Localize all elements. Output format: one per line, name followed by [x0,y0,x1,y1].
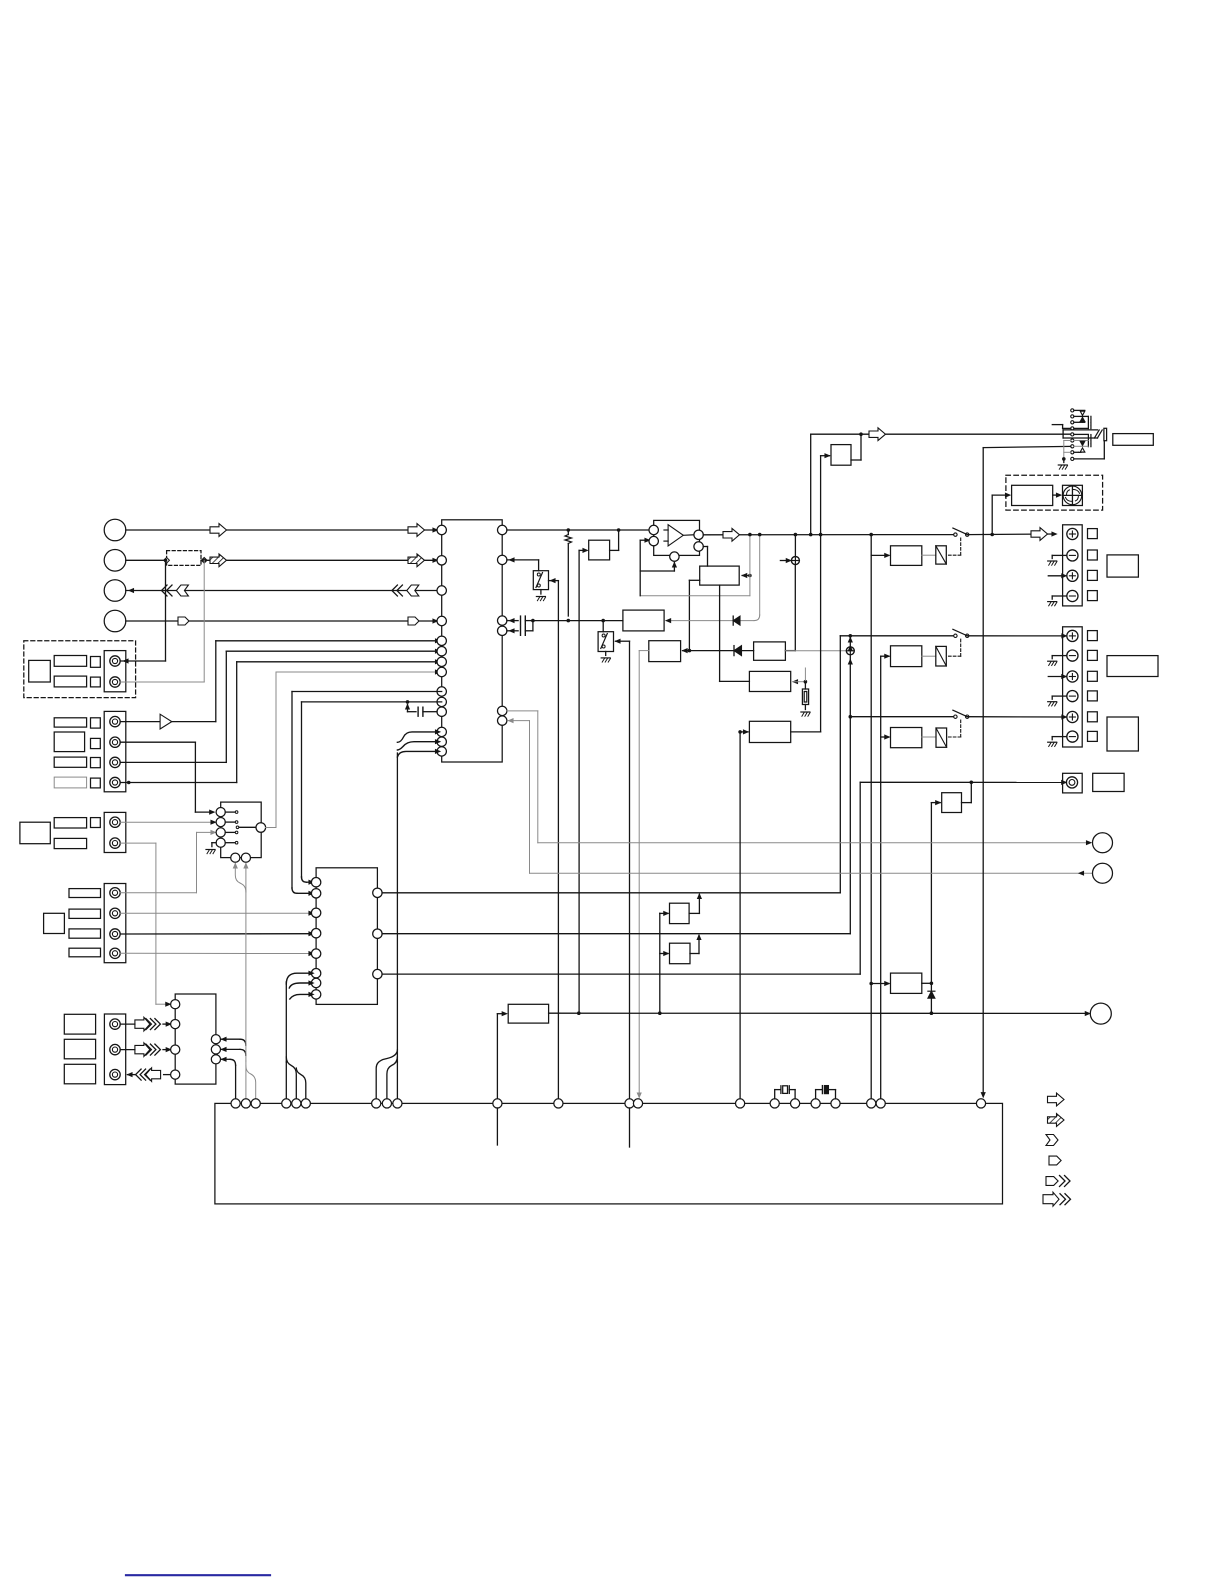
U1 left pin 3 [437,586,446,595]
U2 left pin 5 [311,949,320,958]
SP1 terminal 3 plus [1067,570,1078,581]
SP2 terminal 1 plus [1067,630,1078,641]
B8 input [931,801,940,990]
wire U1.out1 to opamp [507,528,649,532]
jack pin3 lead [1074,421,1085,424]
diode D3 [928,991,935,1015]
IC U1 body [442,520,503,762]
label rect d2 [54,676,86,687]
B1 bottom feed [689,580,699,650]
fan motor M1 [1063,485,1083,505]
encoder pin4 ground [206,843,216,854]
jack diode DH2 filled [1080,417,1085,421]
hatched arrow row2 b [408,554,425,567]
system control block body [215,1103,1003,1204]
terminal CN2-2 [110,737,120,747]
encoder pin2 [216,818,225,827]
encoder pin3 [216,828,225,837]
SP2 t2 ground [1048,656,1067,666]
wire CN2-1 up to U1 [216,639,440,722]
SP2 label box B [1107,717,1138,751]
label rect c2c [54,757,86,767]
jack label box [1113,434,1154,446]
terminal CN5-3 [110,1069,120,1079]
preout terminal [1066,777,1077,788]
pin square d2 [91,677,101,687]
arrowhead into U1 pin1 [433,528,438,532]
U1 left pin 14 [437,747,446,756]
det riser from U2 area [659,912,661,914]
K1 coupler [922,546,947,564]
diode D1 [734,646,742,656]
snubber cap C4 [816,1086,836,1099]
U2 left pin 3 [311,908,320,917]
connector CN4 body [104,884,126,963]
main line opamp to SPK switch [703,528,955,541]
U1 left pin 1 [437,525,446,534]
jack pin9 wire [1074,441,1104,459]
terminal CN5-1 [110,1019,120,1029]
wire S1r2 to bus [222,1047,246,1055]
cap line to box B5 [533,619,623,623]
terminal CN5-2 [110,1044,120,1054]
legend arrow 4 pentagon [1049,1156,1061,1165]
SW1 right wire [549,579,559,1099]
speaker line2 to SP2 [967,634,1066,638]
U2 right pin3 wire [382,973,860,975]
label rect c4a [69,889,101,898]
net 650 wire [683,649,754,653]
K2 input [881,654,890,1099]
label rect c4d [69,948,101,957]
label rect c4c [69,929,101,938]
U2 pins6-8 ribbon fan [286,971,313,1062]
encoder common circle [256,823,266,833]
preout label box [1093,773,1124,791]
jack diode DH1 hollow [1080,411,1085,416]
wire CN4-3 to U2 [120,932,313,936]
chevron arrow row3 a [162,585,189,596]
U1 pin9 wire to U2 [292,692,442,896]
op-amp U3 outer box [654,520,700,555]
relay switch SWA [953,528,969,536]
snubber crystal X3 [775,1086,795,1099]
relay switch SWC [953,710,969,718]
label rect c4b [69,909,101,918]
U1 pins12-14 ribbon fan [397,730,440,1062]
ribbon fan to bus group3 [376,1050,397,1099]
terminal CN3-2 [110,838,120,848]
pentagon arrow row4 b [408,617,419,625]
BB in [660,952,669,956]
SUM1 to main line [794,535,796,557]
terminal CN1-1 [110,656,120,666]
K3 input [881,735,890,739]
speaker block SP1 body [1063,525,1083,606]
wire CN2-2 down [120,742,214,814]
preout terminal box [1063,773,1083,793]
connector CN1 body [104,651,126,692]
U2 right pin 2 [373,929,382,938]
relay driver K2 box [891,646,922,667]
crystal X2 [801,682,810,717]
delay box BB [670,943,691,964]
jack diode DH3 filled [1080,441,1085,446]
label rect d1 [54,656,86,667]
bus inner stub 1 [496,1108,498,1145]
preout line [860,780,1066,784]
B10 input [871,982,889,986]
block B0 [589,540,610,560]
legend arrow 2 hatched [1048,1114,1065,1127]
jack diode DH4 hollow [1080,448,1085,452]
B7 input [821,454,830,535]
U2 net up C [859,782,861,974]
terminal CN3-1 [110,817,120,827]
op-amp U3 in2 [649,536,658,545]
jack sleeve net vertical [981,534,985,1097]
mute switch SW1 box [533,571,548,590]
fan link [1053,493,1061,497]
top line to headphone jack [811,428,1070,441]
wire row2 right [164,559,442,563]
U2 right pin 1 [373,888,382,897]
label box c4 [44,913,65,933]
label box c2b [54,732,84,752]
speaker line2 [840,634,955,638]
U1 right pin 6 [498,716,507,725]
hatched arrow row2 a [210,554,227,567]
B1 right input [742,574,752,578]
terminal CN2-1 [110,716,120,726]
pin square c2-3 [91,758,101,768]
terminal CN4-2 [110,908,120,918]
U2 fan to bus group2 [286,1057,306,1099]
jack ground net (grey) [1064,441,1071,459]
K1 dashed link [948,538,961,555]
U2 left pin 8 [311,990,320,999]
big circle out2 [1093,863,1113,883]
U2 left pin 1 [311,878,320,887]
label rect c3a [54,818,86,828]
U1 left pin 5 [437,636,446,645]
K2 coupler [922,646,947,666]
pin S1 right2 [211,1045,220,1054]
K3 dashed link [948,720,961,737]
wire encoder pinB down (grey) [244,864,248,1062]
pin S1 left1 [171,1000,180,1009]
relay switch SWB [953,629,969,637]
terminal CN1-2 [110,677,120,687]
SP2 pin squares [1088,631,1098,742]
relay driver K3 box [891,728,922,748]
delay box BA [670,903,690,923]
SP2 terminal 6 minus [1067,731,1078,742]
SW2 ground [601,652,610,663]
mute switch SW2 box [598,621,613,652]
U1 right pin 4 [498,626,507,635]
wire CN2-4 up to U1 [120,660,440,784]
wire encoder pinA down (grey) [233,864,246,893]
U1 right pin 1 [498,525,507,534]
grey link B2 to sum2 [785,650,846,652]
block B4 [749,721,790,742]
U2 right pin 3 [373,969,382,978]
protect box B7 [831,445,851,466]
SP2 terminal 4 minus [1067,691,1078,702]
terminal CN4-3 [110,929,120,939]
terminal CN4-4 [110,948,120,958]
optical module box [29,660,51,682]
speaker line3 [849,715,956,719]
summing node SUM1 [791,557,799,565]
block S1 body [175,994,216,1084]
wire row3 [126,589,442,593]
legend arrow 6 block chev [1043,1192,1071,1206]
pin S1 right1 [211,1035,220,1044]
U1 pin10 wire to U2 [302,702,442,884]
fan feed [992,493,1010,534]
pin square d1 [91,657,101,668]
connector CN5 body [104,1014,125,1085]
label rect c2a [54,718,86,727]
block B5 [623,610,664,631]
label box c5c [64,1064,95,1084]
SUM1 stub in [780,559,790,563]
U1 left pin 6 [437,647,446,656]
SP2 terminal 3 plus [1067,671,1078,682]
footer link line [126,1574,270,1576]
wire fanout to bus mid (grey) [245,1061,247,1099]
U1 left pin 11 [437,707,446,716]
wire encoder common to U1 (grey) [266,670,440,827]
U2 left pin 2 [311,889,320,898]
SP1 t2 ground [1048,555,1067,565]
SP1 t3 stub [1048,574,1066,578]
label box c3 [20,822,50,844]
U2 left pin 7 [311,978,320,987]
grey riser pin5 [507,711,538,843]
input jack J4 [104,610,126,632]
fan driver box [1012,485,1053,505]
pin square c2-1 [91,718,101,728]
big circle out1 [1093,833,1113,853]
SP1 terminal 4 minus [1067,590,1078,601]
wire CN4-1 up to encoder (grey) [120,830,215,892]
grey riser pin6 [509,719,530,874]
wire row2 left [126,559,167,561]
power rail vert A to bus [869,555,873,1098]
SP2 t6 ground [1048,737,1067,747]
terminal CN4-1 [110,888,120,898]
wire row4 [126,620,442,622]
op-amp U3 out2 [694,542,703,551]
bus arrow out CN5-1 [120,1017,171,1031]
BA out [689,894,701,913]
encoder pin4 [216,838,225,847]
capacitor C1 to U1 pin11 [406,700,437,716]
wire S1r3 to bus [222,1057,236,1098]
connector CN3 body [104,812,126,852]
block B2 [754,642,786,660]
op-amp U3 in1 [649,525,658,534]
headphone det circle [1090,1003,1111,1024]
K2 dashed link [948,639,961,656]
SP2 t4 ground [1048,696,1067,706]
B4 feed vert [739,732,741,1099]
wire B1 to B3 [720,585,750,681]
legend arrow 1 open [1048,1093,1065,1106]
det box B9 [508,1004,548,1023]
SP2 label box A [1107,656,1158,677]
sum node SUM2 [846,638,854,934]
box B8 [942,793,962,813]
jack line2 [983,446,1070,534]
block B6 [649,641,681,662]
bus arrow out CN5-2 [120,1043,171,1057]
block B3 [749,671,790,691]
SP1 pin squares [1088,529,1098,601]
signal arrow row1 b [408,524,425,537]
B9 input [497,1012,506,1099]
SP2 terminal 5 plus [1067,711,1078,722]
terminal CN2-4 [110,777,120,787]
B4 output loop [791,731,821,733]
bus pin circles [231,1099,986,1108]
input jack J1 (top analog input) [104,519,126,541]
chevron arrow row3 b [392,585,419,596]
op-amp U3 bottom pin [640,552,679,571]
U1 right pin 5 [498,706,507,715]
pin square c2-2 [91,738,101,748]
det net riser [660,911,669,1013]
speaker block SP2 body [1063,627,1083,747]
wire CN3-2 down to S1 block (grey) [120,843,170,1006]
pin S1 left3 [171,1045,180,1054]
label rect c3b [54,838,86,848]
wire S1r1 to bus [222,1037,246,1045]
op-amp U3 triangle [664,525,683,546]
SP2 t3 stub [1048,675,1066,679]
wire CN2-3 up to U1 [120,649,440,762]
pentagon arrow row4 a [178,617,189,625]
SP1 label box [1107,555,1138,577]
SP2 terminal 2 minus [1067,650,1078,661]
arrowhead into U1 pin2 [433,558,438,562]
resistor R1 [565,530,572,616]
op-amp U3 out1 [683,530,703,539]
pin square c2-4 [91,778,101,788]
encoder body outline [221,802,262,858]
SW2 right wire [616,639,630,1099]
pin S1 right3 [211,1055,220,1064]
jack pin1 lead [1074,409,1085,411]
jack plug body [1063,430,1102,438]
label rect c2d (grey) [54,777,86,788]
power detect box B10 [891,973,922,993]
wire CN1-2 to row2 (grey) [120,560,204,682]
jack pin6 lead (grey) [1074,440,1088,442]
jack tip rect [1104,428,1107,440]
SP1 terminal 2 minus [1067,550,1078,561]
B7 output up [851,434,861,460]
wire CN4-2 to U2 (grey) [120,911,313,915]
wire CN4-4 to U2 (grey) [120,952,313,956]
B3 right net [793,668,807,684]
SW1 ground [536,590,545,601]
pin square c3-1 [91,818,101,828]
jack pin8 lead [1074,451,1082,453]
encoder common stub [236,826,256,829]
input jack J3 [104,580,126,602]
dashed option box on row2 [164,551,207,566]
op-amp out2 wire to B1 [703,547,707,567]
dashed block optical-in [24,641,136,698]
block B2 right link [785,565,795,651]
terminal CN2-3 [110,757,120,767]
wire row1 [126,529,442,531]
pin S1 left4 [171,1070,180,1079]
U2 right pin2 wire [382,933,850,935]
jack sleeve bar upper [1088,416,1091,428]
K3 coupler [922,728,947,747]
input jack J2 [104,550,126,572]
jack pin7 lead [1074,445,1088,447]
U2 left pin 4 [311,929,320,938]
vertical from main line to top [810,434,812,534]
coupling caps C2 C3 [507,616,535,635]
IC U2 body [316,868,377,1005]
signal arrow row1 a [210,524,227,537]
U1 left pin 4 [437,616,446,625]
U1 left pin 12 [437,727,446,736]
jack pin2 lead [1074,415,1088,417]
big circle out2 (grey line) [530,871,1093,875]
U1 left pin 9 [437,687,446,696]
U1 left pin 10 [437,697,446,706]
wire CN1-1 to row2 [120,560,165,663]
B10 output [922,982,933,986]
label box c5b [64,1039,95,1059]
encoder pin1 [216,808,225,817]
buffer amp on CN2-1 [120,714,216,729]
junction R1 cap line [567,619,571,623]
label box c5a [64,1014,95,1034]
U1 left pin 7 [437,657,446,666]
net 579 to det line [579,548,587,1013]
big circle out1 (grey line) [538,841,1091,845]
grey drop net2 [666,535,760,623]
vertical B7 line down [820,535,822,732]
wire U1.out2 to SW1 [507,558,539,571]
jack sleeve bar lower [1088,435,1091,447]
pin S1 left2 [171,1020,180,1029]
encoder bottom pinB [241,853,250,862]
fan dashed box [1006,475,1103,510]
diode D2 [733,616,740,625]
det line [549,1011,1090,1015]
U1 right pin 3 [498,616,507,625]
SP1 t4 ground [1048,596,1067,606]
BB out [690,935,701,954]
encoder pin stubs [225,811,238,844]
U2 right pin1 wire [382,892,840,894]
jack pins [1071,409,1074,461]
encoder bottom pinA [231,853,240,862]
jack ground [1058,457,1067,469]
connector CN2 body [104,711,126,791]
U1 left pin 13 [437,737,446,746]
